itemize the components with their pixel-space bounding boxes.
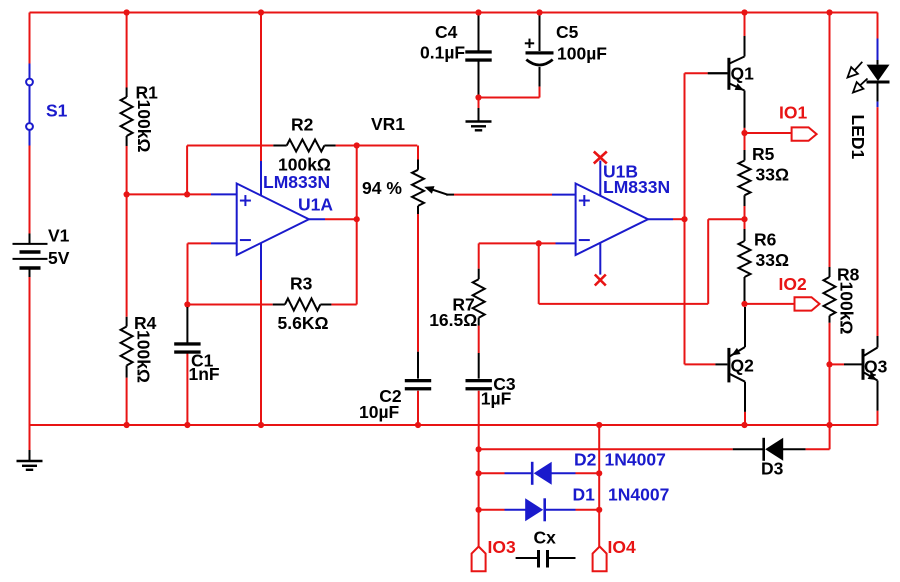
wire Q2 base wire xyxy=(685,363,728,365)
junction bus / C2 xyxy=(415,422,421,428)
label C5 xyxy=(556,22,579,42)
svg-text:IO4: IO4 xyxy=(608,537,636,557)
wire feedback column R2-R3 xyxy=(356,146,358,305)
label U1B xyxy=(603,162,638,182)
svg-text:100kΩ: 100kΩ xyxy=(134,330,154,383)
svg-text:V1: V1 xyxy=(48,226,70,246)
wire D3 row left xyxy=(479,448,733,450)
wire VR1 top lead xyxy=(417,146,419,160)
junction R2 right / feedback column xyxy=(354,142,360,148)
wire U1B output xyxy=(648,218,685,220)
svg-text:100kΩ: 100kΩ xyxy=(134,100,154,153)
svg-text:16.5Ω: 16.5Ω xyxy=(429,310,477,330)
wire C4 bottom lead xyxy=(478,60,480,97)
wire Q1 collector lead xyxy=(744,13,746,57)
wire C5 top lead xyxy=(539,15,541,52)
label VR1 xyxy=(371,114,405,134)
wire left rail upper segment xyxy=(29,13,31,64)
wire U1A output xyxy=(309,218,357,220)
label D2 xyxy=(574,450,597,470)
port IO3 xyxy=(472,547,486,572)
wire feedback to R5/R6 node xyxy=(539,219,745,304)
junction R8 / Q3 base xyxy=(826,361,832,367)
label IO3 xyxy=(488,537,516,557)
resistor R3 xyxy=(273,299,332,311)
port IO1 xyxy=(792,127,817,140)
junction R5/R6 node xyxy=(741,216,747,222)
junction top rail / U1A V+ xyxy=(258,9,264,15)
diode D3 1N4007 xyxy=(764,438,784,461)
junction U1A output / feedback xyxy=(354,216,360,222)
svg-text:LED1: LED1 xyxy=(848,115,868,160)
junction + input branch xyxy=(184,191,190,197)
junction top rail / R1 xyxy=(124,9,130,15)
capacitor C4 xyxy=(465,50,491,61)
potentiometer VR1 xyxy=(412,160,454,215)
wire IO3 column xyxy=(478,449,480,546)
label R6 xyxy=(754,230,777,250)
op-amp U1B xyxy=(576,184,648,256)
junction C4/C5 ground node xyxy=(475,94,481,100)
label IO4 xyxy=(608,537,636,557)
svg-text:Q2: Q2 xyxy=(731,356,755,376)
wire left rail battery-to-bus segment xyxy=(29,277,31,425)
wire R7 bottom to C3 xyxy=(478,326,480,379)
diode D1 1N4007 xyxy=(525,498,545,521)
svg-text:R6: R6 xyxy=(754,230,777,250)
wire R2 left branch xyxy=(187,146,273,195)
label R3 value 5.6K&#937; xyxy=(278,313,329,333)
wire C5 bottom lead xyxy=(539,67,541,98)
wire Q3 base wire xyxy=(830,363,862,365)
label V1 xyxy=(48,226,70,246)
svg-text:C5: C5 xyxy=(556,22,579,42)
transistor Q1 (NPN) xyxy=(708,57,745,91)
svg-text:100kΩ: 100kΩ xyxy=(837,282,857,335)
wire LED1 bottom lead xyxy=(877,84,879,108)
svg-text:1N4007: 1N4007 xyxy=(608,485,669,505)
resistor R1 xyxy=(121,88,133,147)
port IO2 xyxy=(795,297,820,310)
label VR1 94 % xyxy=(362,178,402,198)
wire top +5V rail xyxy=(30,12,878,14)
label R4 xyxy=(134,313,157,333)
junction D1 left node xyxy=(476,507,482,513)
wire R8 bottom / Q3 base column xyxy=(829,323,831,425)
label R7 value 16.5ohm xyxy=(429,310,477,330)
svg-text:5.6KΩ: 5.6KΩ xyxy=(278,313,329,333)
label U1A xyxy=(298,195,333,215)
wire C3 bottom lead xyxy=(478,391,480,450)
svg-text:C4: C4 xyxy=(435,22,458,42)
svg-text:D3: D3 xyxy=(761,459,784,479)
label 5V value xyxy=(48,248,70,268)
wire Q3 emitter lead xyxy=(877,381,879,426)
svg-text:33Ω: 33Ω xyxy=(756,250,790,270)
label R1 value 100k&#937; xyxy=(134,100,154,153)
label Q1 xyxy=(731,63,755,83)
label D1 xyxy=(573,485,596,505)
wire D3 right to bus xyxy=(806,425,830,449)
pin U1B V- (unconnected) xyxy=(595,243,606,286)
wire Cx right lead xyxy=(549,557,576,559)
capacitor C5 (polarized) xyxy=(525,39,554,65)
label IO1 xyxy=(779,103,807,123)
junction R6 / IO2 / Q2 xyxy=(741,301,747,307)
battery V1 xyxy=(13,234,48,278)
label Q2 xyxy=(731,356,755,376)
transistor Q2 (PNP) xyxy=(729,347,745,382)
junction bus / Q2 collector xyxy=(741,422,747,428)
resistor R2 xyxy=(273,140,335,152)
label D3 xyxy=(761,459,784,479)
capacitor C1 xyxy=(174,342,200,353)
wire U1B - input wire xyxy=(479,242,576,244)
pin U1B V+ (unconnected) xyxy=(594,152,607,197)
svg-text:Cx: Cx xyxy=(534,528,557,548)
label R7 xyxy=(452,295,474,315)
junction top rail / C5 xyxy=(536,9,542,15)
wire IO4 column xyxy=(598,425,600,547)
wire C4 top lead xyxy=(478,15,480,52)
label R8 xyxy=(837,265,860,285)
svg-text:VR1: VR1 xyxy=(371,114,405,134)
junction top rail / C4 xyxy=(475,9,481,15)
label R2 xyxy=(291,115,314,135)
junction D3 row / C3 column xyxy=(476,446,482,452)
junction bus / IO4 column xyxy=(596,422,602,428)
wire R6 top lead xyxy=(744,219,746,229)
label S1 xyxy=(46,101,68,121)
junction top rail / Q1 xyxy=(741,9,747,15)
label R3 xyxy=(290,274,313,294)
resistor R4 xyxy=(121,317,133,378)
wire C2 bottom lead xyxy=(417,391,419,425)
label D1 value 1N4007 xyxy=(608,485,669,505)
wire Q1 base wire xyxy=(685,72,728,74)
svg-text:94 %: 94 % xyxy=(362,178,402,198)
switch S1 xyxy=(26,64,33,146)
transistor Q3 (NPN) xyxy=(863,348,878,381)
wire R5 top lead xyxy=(744,133,746,150)
wire Q2 collector lead xyxy=(744,382,746,425)
svg-text:LM833N: LM833N xyxy=(263,172,330,192)
label C2 value 10uF xyxy=(359,402,400,422)
wire R1 top lead xyxy=(126,13,128,88)
wire left rail S1-to-battery segment xyxy=(29,146,31,234)
wire LED1 to Q3 collector xyxy=(877,107,879,347)
wire bottom bus xyxy=(30,424,878,426)
wire ground stub top xyxy=(478,98,480,122)
wire R3 left lead wire xyxy=(188,304,273,306)
wire VR1 bottom to C2 xyxy=(417,214,419,379)
wire R7 top lead wire xyxy=(478,243,480,268)
ground GND bottom-left xyxy=(17,461,43,470)
junction top rail / R8 xyxy=(826,9,832,15)
wire R3 right lead wire xyxy=(331,304,356,306)
wire Q2 emitter lead xyxy=(744,307,746,347)
svg-text:10µF: 10µF xyxy=(359,402,400,422)
resistor R8 xyxy=(824,267,836,323)
wire R5 bottom lead xyxy=(744,206,746,219)
svg-text:33Ω: 33Ω xyxy=(756,165,790,185)
label R5 value 33ohm xyxy=(756,165,790,185)
label C2 xyxy=(379,386,402,406)
svg-text:IO1: IO1 xyxy=(779,103,807,123)
label R6 value 33ohm xyxy=(756,250,790,270)
svg-text:R3: R3 xyxy=(290,274,313,294)
wire IO1 wire xyxy=(745,132,792,134)
wire C4-C5 bottom wire xyxy=(479,97,540,99)
label LED1 xyxy=(848,115,868,160)
capacitor C3 xyxy=(466,379,492,390)
svg-text:S1: S1 xyxy=(46,101,68,121)
wire U1B output column Q1-Q2 bases xyxy=(684,73,686,364)
wire D1 row xyxy=(479,509,600,511)
junction R3 / C1 node xyxy=(184,301,190,307)
svg-text:1N4007: 1N4007 xyxy=(605,450,666,470)
wire R8 top lead xyxy=(829,13,831,268)
label Cx xyxy=(534,528,557,548)
svg-text:IO3: IO3 xyxy=(488,537,516,557)
label D2 value 1N4007 xyxy=(605,450,666,470)
resistor R7 xyxy=(473,269,485,326)
wire node to U1A + input xyxy=(127,193,237,195)
label C4 xyxy=(435,22,458,42)
wire C1 top lead xyxy=(186,307,188,343)
label Q3 xyxy=(864,357,888,377)
junction bus / R8 column xyxy=(826,422,832,428)
resistor R6 xyxy=(739,229,751,301)
junction U1B - / feedback xyxy=(536,240,542,246)
junction bus / C1 xyxy=(184,422,190,428)
wire R2 right to VR1 top xyxy=(336,145,418,147)
svg-text:Q1: Q1 xyxy=(731,63,755,83)
label R8 value 100k&#937; xyxy=(837,282,857,335)
junction R1/R4 node xyxy=(124,191,130,197)
wire ground stub bottom-left xyxy=(29,425,31,461)
wire IO2 wire xyxy=(745,303,795,305)
ground GND C4/C5 xyxy=(466,122,492,131)
capacitor C2 xyxy=(405,379,431,390)
svg-text:5V: 5V xyxy=(48,248,70,268)
wire LED1 top lead xyxy=(877,13,879,65)
label C1 xyxy=(191,351,214,371)
wire D2 row xyxy=(479,472,600,474)
label C1 value 1nF xyxy=(189,364,220,384)
label R4 value 100k&#937; xyxy=(134,330,154,383)
svg-text:100µF: 100µF xyxy=(557,44,607,64)
LED LED1 xyxy=(848,62,890,93)
svg-text:R2: R2 xyxy=(291,115,314,135)
junction D1 right node xyxy=(596,507,602,513)
wire R4 bottom lead xyxy=(126,378,128,425)
port IO4 xyxy=(593,547,607,572)
wire U1A V- rail xyxy=(260,243,262,426)
label C3 xyxy=(493,374,516,394)
junction bus / U1A V- xyxy=(258,422,264,428)
label C3 value 1uF xyxy=(481,389,512,409)
wire R6 bottom lead xyxy=(744,301,746,304)
resistor R5 xyxy=(739,150,751,206)
junction bus / R4 xyxy=(124,422,130,428)
wire R1-R4 middle segment xyxy=(126,146,128,317)
label R1 xyxy=(136,83,159,103)
svg-text:D1: D1 xyxy=(573,485,596,505)
label R5 xyxy=(752,144,775,164)
svg-text:R5: R5 xyxy=(752,144,775,164)
wire VR1 wiper to U1B + input xyxy=(454,194,576,196)
label R2 value 100k&#937; xyxy=(278,155,331,175)
wire U1A - input branch xyxy=(188,243,237,304)
wire Cx left lead xyxy=(516,557,538,559)
label C4 value 0.1uF xyxy=(420,43,465,63)
svg-text:Q3: Q3 xyxy=(864,357,888,377)
diode D2 1N4007 xyxy=(532,462,552,485)
junction D2 right node xyxy=(596,470,602,476)
label C5 value 100uF xyxy=(557,44,607,64)
label IO2 xyxy=(779,274,807,294)
svg-text:U1A: U1A xyxy=(298,195,333,215)
svg-text:D2: D2 xyxy=(574,450,597,470)
label U1B LM833N xyxy=(603,177,670,197)
label U1A LM833N xyxy=(263,172,330,192)
junction U1B output node xyxy=(681,216,687,222)
wire U1A V+ rail xyxy=(260,13,262,197)
wire D3 leads xyxy=(733,448,806,450)
op-amp U1A xyxy=(237,184,309,256)
svg-text:1nF: 1nF xyxy=(189,364,220,384)
wire C1 bottom lead xyxy=(186,354,188,426)
wire Q1 emitter lead xyxy=(744,91,746,134)
svg-text:IO2: IO2 xyxy=(779,274,807,294)
junction D2 left node xyxy=(476,470,482,476)
svg-text:0.1µF: 0.1µF xyxy=(420,43,465,63)
svg-text:1µF: 1µF xyxy=(481,389,512,409)
junction Q1 emitter / IO1 / R5 xyxy=(741,130,747,136)
svg-text:LM833N: LM833N xyxy=(603,177,670,197)
capacitor Cx xyxy=(537,550,549,568)
